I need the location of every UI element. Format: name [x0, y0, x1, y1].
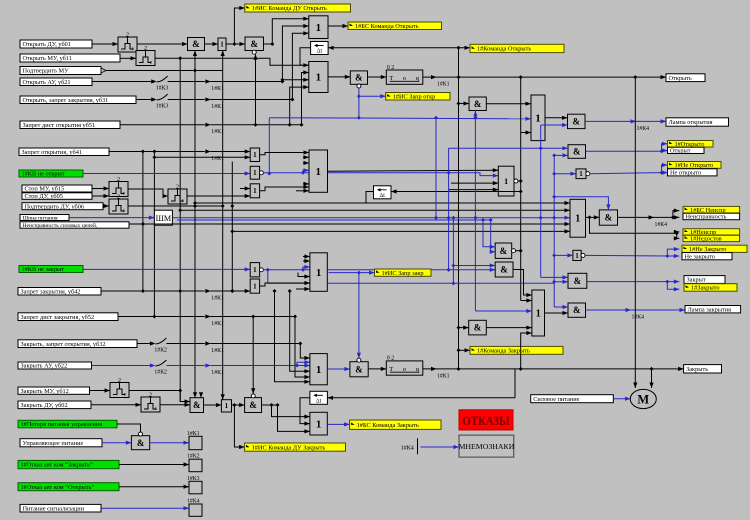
wire B9 out to AND A3 — [586, 215, 600, 219]
and gate A1 (лампа открытия) — [568, 114, 586, 128]
blue branch y283 to right — [268, 270, 554, 284]
wire уб31 to riser — [210, 98, 294, 102]
riser АУ to OR B1 input2 — [282, 24, 308, 82]
vertical open command to motor — [633, 77, 637, 388]
vertical command bus — [457, 48, 461, 369]
wire U7 to U8 — [232, 403, 245, 407]
blue input A4 b — [552, 280, 568, 284]
wire P2 out along y58 — [155, 58, 309, 67]
wire Открыть ДУ to pulse P1 — [92, 42, 118, 46]
contact 1#К1 on уб41 line — [205, 149, 224, 162]
svg-text:0 2: 0 2 — [387, 356, 395, 362]
svg-text:1#К1: 1#К1 — [211, 370, 224, 376]
wire уб51 to contact 1#К1 — [120, 124, 205, 126]
wire P1 out to AND U1 — [137, 42, 188, 46]
input label: Открыть МУ, уб11 — [20, 54, 120, 62]
wire U2 to U3 — [226, 42, 245, 46]
svg-text:Управляющее питание: Управляющее питание — [23, 440, 84, 447]
wire T2 out to Закрыть output — [423, 367, 684, 371]
timer T1 (0 2) — [386, 65, 423, 85]
svg-text:1#К1: 1#К1 — [437, 82, 450, 88]
relay coil 1#К1 — [187, 431, 202, 450]
wire Неисправность силовых цепей bus y224 — [129, 222, 570, 226]
wire уб52 to contact — [118, 316, 205, 318]
contact 1#К1 on open command line — [431, 75, 450, 88]
wire уб32 to switch — [137, 343, 149, 345]
or gate B2 — [309, 62, 328, 93]
contact 1#К1 on уб31 line — [205, 97, 224, 110]
wire PA out to pulse PC — [128, 189, 168, 198]
blue input A6 b — [489, 218, 496, 254]
stub to AND U10 — [459, 326, 469, 330]
svg-text:Неисправность: Неисправность — [686, 214, 727, 221]
svg-text:1#К3: 1#К3 — [156, 86, 169, 92]
svg-text:1#Не Открыто: 1#Не Открыто — [675, 162, 714, 169]
blue wire from U4 inverter to Запр откр label — [357, 88, 361, 118]
arrow input B3 d — [296, 189, 309, 193]
blue wire g2 out to OR G1s — [263, 171, 498, 178]
svg-text:2: 2 — [117, 194, 120, 200]
blue enable line y117.7 to OR B7 — [269, 116, 531, 121]
svg-text:&: & — [250, 39, 258, 49]
svg-text:Закрыть ДУ, уб02: Закрыть ДУ, уб02 — [21, 402, 68, 409]
svg-text:&: & — [500, 265, 508, 275]
blue input A2 b — [552, 153, 568, 157]
svg-text:1#ИС Запр откр: 1#ИС Запр откр — [393, 94, 436, 101]
svg-text:1: 1 — [504, 177, 508, 186]
input label: Подтвердить МУ — [20, 67, 101, 75]
svg-text:1#К1: 1#К1 — [211, 295, 224, 301]
and gate U5 — [469, 97, 486, 111]
arrow input B3 b — [303, 161, 309, 165]
svg-text:2: 2 — [176, 184, 179, 190]
blue input A7 a — [451, 263, 495, 267]
blue wire Управляющее питание to A0 — [102, 441, 131, 445]
svg-text:Открыть, запрет закрытия, уб31: Открыть, запрет закрытия, уб31 — [23, 97, 109, 104]
input label: Неисправность силовых цепей — [20, 222, 129, 229]
signal label: 1#ИС Команда ДУ Открыть — [245, 4, 351, 12]
svg-text:1#К2: 1#К2 — [154, 370, 167, 376]
contact 1#К4 on лампа открытия line — [631, 119, 650, 132]
wire Δt3 out down — [366, 192, 374, 204]
svg-text:1: 1 — [316, 267, 322, 279]
timer T2 (0 2) — [386, 356, 423, 375]
stub to AND U5 — [459, 101, 470, 105]
input label: Закрыть ДУ, уб02 — [18, 401, 91, 409]
signal label: 1#ИС Запр закр — [375, 269, 432, 277]
stub input g3 — [240, 186, 250, 190]
input label: Запрет открытия, уб41 — [19, 148, 109, 156]
or gate B7 — [531, 95, 545, 141]
vertical close command to motor — [649, 369, 653, 388]
fork to 1#Недостов — [674, 233, 680, 240]
input label: Закрыть, запрет открытия, уб32 — [18, 340, 137, 348]
input label: Запрет закрытия, уб42 — [18, 288, 101, 296]
switch contact 1#К3 on АУ line — [150, 76, 168, 92]
svg-text:1#Команда Закрыть: 1#Команда Закрыть — [477, 348, 530, 355]
svg-text:1#К2: 1#К2 — [187, 454, 200, 460]
wire уб32 to contact 1#К1 — [166, 343, 204, 345]
blue input A5 — [554, 305, 568, 309]
svg-text:1: 1 — [315, 166, 321, 178]
marker label: 1#Отказ авт ком Закрыть — [18, 460, 119, 468]
svg-text:1#Закрыто: 1#Закрыто — [691, 285, 720, 292]
svg-text:2: 2 — [117, 177, 120, 183]
svg-text:1: 1 — [253, 266, 257, 274]
svg-text:2: 2 — [144, 46, 147, 52]
wire riser to label ИС Команда ДУ Открыть — [234, 6, 244, 44]
blue fork to 1#Не Закрыто — [667, 247, 679, 256]
wire bus y203 — [193, 201, 570, 205]
contact 1#К1 on уб52 line — [205, 314, 224, 327]
svg-text:2: 2 — [126, 32, 129, 38]
and gate A2 (открыто) — [568, 145, 586, 159]
blue wire Шина питания to ШМ — [69, 216, 154, 220]
contact 1#К1 on уб51 line — [205, 123, 224, 136]
relay coil 1#К2 — [187, 454, 202, 472]
or gate g3 — [250, 184, 259, 198]
arrow to Неисправность — [673, 215, 679, 219]
svg-text:Стоп ДУ, уб05: Стоп ДУ, уб05 — [25, 193, 63, 200]
svg-text:&: & — [355, 364, 363, 374]
riser уб32 to B5 input1 — [300, 344, 310, 361]
arrow into U6 top — [193, 392, 197, 398]
svg-text:1#БС Команда Закрыть: 1#БС Команда Закрыть — [357, 422, 419, 429]
svg-text:1#К1: 1#К1 — [211, 86, 224, 92]
and gate A3 (неисправность) — [599, 210, 617, 225]
or gate B9 (неисправности) — [570, 199, 586, 237]
riser уб52 to inverted input bottom AND — [251, 317, 255, 394]
marker label: 1#КВ не открыт — [19, 170, 83, 178]
contact 1#К1 on уб42 line — [205, 289, 224, 302]
alarm box ОТКАЗЫ — [459, 410, 513, 430]
riser to B5 input5 — [288, 289, 310, 373]
blue wire N1 out to pair Не открыто — [590, 171, 664, 175]
svg-text:Δt: Δt — [317, 49, 323, 55]
wire Отказ Закрыть to coil K2 — [119, 462, 189, 466]
svg-text:Закрыть АУ, уб22: Закрыть АУ, уб22 — [21, 363, 68, 370]
blue vertical v436 — [434, 116, 438, 220]
svg-text:М: М — [637, 393, 649, 407]
wire A7 out to OR B8 input1 — [513, 270, 532, 298]
svg-text:2: 2 — [118, 378, 121, 384]
blue fork to 1#Не Открыто — [662, 163, 668, 173]
input G1s d — [449, 188, 498, 192]
svg-text:1: 1 — [316, 364, 322, 376]
riser уб42 to B5 — [273, 289, 310, 384]
or gate B5 — [310, 354, 327, 385]
blue feeder to A2 input1 — [449, 146, 568, 150]
output label: Лампа закрытия — [685, 306, 741, 314]
input label: Запрет дист закрытия, уб52 — [18, 313, 118, 321]
input label: Закрыть МУ, уб12 — [18, 387, 90, 395]
switch contact 1#К3 on уб31 line — [150, 94, 168, 110]
or gate U2 (1) — [218, 38, 226, 51]
wire уб42 line — [101, 290, 205, 292]
stub v520 to B8 input2 — [521, 298, 532, 302]
svg-text:1#Отказ авт ком “Открыть”: 1#Отказ авт ком “Открыть” — [21, 484, 95, 491]
svg-text:Δt: Δt — [316, 398, 322, 404]
or gate B4 — [310, 253, 327, 291]
blue power bus y217.7 — [172, 216, 570, 220]
wire Потеря питания to AND A0 — [117, 424, 141, 432]
svg-text:1: 1 — [220, 41, 224, 49]
wire feedback into Δt2 — [328, 396, 516, 400]
svg-text:МНЕМОЗНАКИ: МНЕМОЗНАКИ — [458, 442, 514, 451]
blue riser from КВ не открыт line — [268, 118, 270, 174]
or gate U7 (1) — [221, 400, 231, 412]
wire уб32 to riser — [210, 342, 302, 346]
svg-text:&: & — [605, 213, 613, 223]
blue branch to label ИС Запр откр — [359, 94, 386, 98]
or gate g5 — [250, 279, 259, 293]
blue input B8 — [475, 309, 532, 313]
marker label: 1#Потеря питания управления — [18, 420, 117, 428]
riser уб31 to OR B1 input3 — [292, 31, 308, 99]
svg-text:1: 1 — [575, 252, 579, 260]
blue power bus second line — [177, 219, 491, 221]
wire U4 out to timer T1 — [368, 75, 387, 79]
input label: Стоп МУ, уб15 — [22, 185, 92, 193]
pulse former P4 (Закрыть МУ) — [110, 378, 129, 398]
wire into Δt3 from right — [391, 189, 523, 193]
svg-text:&: & — [572, 117, 580, 127]
wire U10 out to OR B8 — [486, 326, 532, 330]
second arrow into U6 top — [199, 392, 203, 398]
vertical v154 from уб41 — [152, 152, 156, 319]
wire U8 out — [262, 403, 280, 407]
output label: Не закрыто — [682, 253, 732, 261]
svg-text:Закрыть, запрет открытия, уб32: Закрыть, запрет открытия, уб32 — [21, 341, 106, 348]
svg-text:1#ИС Команда ДУ Закрыть: 1#ИС Команда ДУ Закрыть — [252, 444, 326, 451]
blue wire Силовое питание to motor — [613, 397, 630, 401]
and gate A4 (закрыто) — [568, 273, 587, 288]
input label: Подтвердить ДУ, уб06 — [22, 203, 103, 211]
svg-text:1#К1: 1#К1 — [211, 156, 224, 162]
riser to OR B6 input3 — [278, 405, 310, 434]
wire уб31 to contact 1#К1 — [168, 99, 205, 101]
or gate g4 inverted — [250, 263, 263, 277]
svg-text:2: 2 — [149, 392, 152, 398]
blue fork to 1#Закрыто — [667, 282, 679, 292]
signal label: 1#Закрыто — [684, 284, 737, 292]
or gate N1 inverted (не открыто) — [576, 169, 590, 179]
signal label: 1#БС Команда Открыть — [348, 22, 442, 30]
signal label: 1#БС Неиспр — [683, 206, 740, 214]
svg-text:1#К4: 1#К4 — [637, 126, 650, 132]
svg-text:Неисправность силовых цепей,: Неисправность силовых цепей, — [23, 222, 98, 229]
vertical from G1s out — [518, 180, 521, 182]
switch contact 1#К2 on уб22 line — [149, 360, 167, 376]
svg-text:1#К3: 1#К3 — [187, 476, 200, 482]
pulse former PC — [168, 184, 187, 204]
and gate U8 inverted — [245, 394, 262, 413]
wire Стоп МУ to pulse PA — [92, 186, 109, 190]
input label: Шина питания — [20, 215, 69, 222]
riser уб51 to OR B2 input2 — [302, 70, 309, 124]
signal label: 1#БС Команда Закрыть — [350, 420, 441, 429]
blue wire B5 out to AND U9 — [327, 367, 350, 371]
svg-text:ШМ: ШМ — [156, 214, 172, 223]
blue vertical v475 — [473, 111, 477, 311]
svg-text:ОТКАЗЫ: ОТКАЗЫ — [463, 414, 511, 428]
blue line КВ не открыт — [83, 171, 271, 175]
wire U3 output to OR B1 input1 — [264, 17, 309, 46]
pulse former PB (Подтвердить ДУ) — [109, 194, 128, 214]
wire riser into OR U2 bottom — [221, 51, 225, 71]
blue wire B6 out to БС Команда Закрыть — [327, 422, 349, 426]
delay block Δt2 — [310, 391, 328, 404]
vertical feedback from close line — [514, 369, 516, 398]
svg-text:1#К1: 1#К1 — [211, 348, 224, 354]
blue wire уб22 to B5 — [210, 363, 310, 367]
or gate N2 inverted (не закрыто) — [573, 250, 585, 260]
blue input A6 a — [481, 218, 495, 249]
or gate g1 — [250, 148, 259, 162]
svg-text:Запрет закрытия, уб42: Запрет закрытия, уб42 — [21, 288, 81, 295]
blue vertical into U9 inverter — [357, 273, 361, 359]
and gate U10 — [469, 320, 487, 335]
svg-text:Не открыто: Не открыто — [670, 170, 701, 177]
wire U9 out to timer T2 — [368, 367, 386, 371]
wire U6 to U7 — [204, 403, 222, 407]
signal label: 1#Открыто — [668, 141, 714, 148]
blue arrow to Открыт — [662, 148, 668, 152]
and gate U6 — [190, 398, 204, 413]
svg-text:Питание сигнализации: Питание сигнализации — [23, 505, 85, 512]
svg-text:1: 1 — [575, 214, 580, 225]
svg-text:Открыт: Открыт — [670, 148, 691, 155]
output label: Лампа открытия — [666, 118, 729, 126]
input label: Питание сигнализации — [20, 504, 101, 512]
wire g3 out to OR B3 — [260, 185, 309, 191]
svg-text:&: & — [574, 276, 582, 286]
svg-text:Запрет открытия, уб41: Запрет открытия, уб41 — [22, 149, 83, 156]
input label: Закрыть АУ, уб22 — [18, 362, 92, 370]
relay coil 1#К4 — [187, 499, 202, 517]
blue vertical v448 — [447, 148, 451, 272]
arrow input B4 b — [303, 259, 310, 263]
blue wire A1 out to Лампа открытия — [585, 119, 666, 123]
wire Отказ Открыть to coil K3 — [119, 485, 189, 489]
arrow input B4 c — [298, 273, 310, 279]
blue arrow to Закрыт — [667, 280, 679, 284]
input label: Запрет дист открытия уб51 — [20, 121, 120, 129]
arrow input B3 c — [303, 182, 309, 186]
and gate U3 inverted out — [245, 37, 264, 54]
svg-text:1#Команда Открыть: 1#Команда Открыть — [477, 46, 531, 53]
svg-text:1: 1 — [535, 113, 541, 125]
svg-text:Силовое питание: Силовое питание — [533, 396, 579, 403]
wire Закрыть МУ to pulse P4 — [90, 388, 111, 392]
svg-text:&: & — [474, 99, 482, 109]
wire PB out y206 — [128, 204, 223, 208]
blue stub into B4 — [303, 265, 310, 270]
blue wire уб22 to switch — [92, 365, 150, 367]
relay coil 1#К3 — [187, 476, 202, 494]
blue input N2 — [554, 253, 573, 257]
blue stub into B3 — [303, 168, 309, 173]
svg-text:&: & — [355, 73, 363, 83]
svg-text:Δt: Δt — [380, 193, 386, 199]
svg-text:&: & — [193, 400, 201, 410]
marker label: 1#КВ не закрыт — [19, 266, 83, 274]
svg-text:1: 1 — [536, 308, 541, 319]
svg-text:&: & — [192, 39, 200, 49]
blue vertical v540 — [540, 125, 542, 277]
blue wire уб22 to contact 1#К1 — [166, 365, 204, 367]
and gate A6 inverted (запрет) — [495, 243, 515, 258]
signal label: 1#Команда Закрыть — [470, 346, 563, 354]
wire riser into AND U1 bottom — [193, 51, 197, 71]
svg-text:Открыть АУ, уб21: Открыть АУ, уб21 — [23, 79, 71, 86]
svg-text:1: 1 — [253, 151, 257, 159]
svg-text:1#К4: 1#К4 — [401, 445, 414, 451]
wire feedback into Δt1 and to label Команда Открыть — [328, 46, 470, 50]
contact 1#К1 on уб32 line — [205, 341, 224, 354]
wire Открыть МУ to pulse P2 — [120, 56, 136, 60]
svg-text:Закрыт: Закрыт — [687, 277, 706, 284]
signal label: 1#Недостов — [683, 235, 740, 242]
blue wire A2 out to pair Открыто — [586, 149, 664, 153]
svg-text:&: & — [573, 305, 581, 315]
svg-text:Запрет дист закрытия, уб52: Запрет дист закрытия, уб52 — [21, 314, 95, 321]
svg-text:Лампа открытия: Лампа открытия — [669, 119, 713, 126]
svg-text:1#К3: 1#К3 — [156, 104, 169, 110]
long vertical v195 — [193, 51, 197, 398]
svg-text:Подтвердить ДУ, уб06: Подтвердить ДУ, уб06 — [25, 203, 85, 210]
wire уб41 to OR g1 — [210, 149, 250, 153]
pulse former PA (Стоп) — [109, 177, 128, 197]
svg-text:&: & — [474, 323, 482, 333]
wire Закрыть ДУ to pulse P5 — [91, 403, 141, 407]
or gate B8 (закрытие) — [532, 290, 545, 336]
vertical v143 from уб41 — [141, 152, 145, 294]
stub to label Команда Закрыть — [459, 348, 471, 352]
or gate B3 — [309, 150, 328, 192]
contact 1#К1 on close command line — [431, 367, 450, 380]
svg-text:Закрыть МУ, уб12: Закрыть МУ, уб12 — [21, 388, 69, 395]
long vertical v222 — [221, 71, 225, 400]
blue input into A3 top — [554, 197, 610, 210]
signal label: 1#Не Открыто — [668, 162, 722, 170]
svg-text:Открыть МУ, уб11: Открыть МУ, уб11 — [23, 55, 72, 62]
svg-text:1#К4: 1#К4 — [187, 499, 200, 505]
contact 1#К1 on уб22 line — [205, 363, 224, 376]
and gate U4 inverted enable — [350, 71, 367, 88]
pulse former P5 (Закрыть ДУ) — [141, 392, 160, 412]
svg-text:1#Отказ авт ком “Закрыть”: 1#Отказ авт ком “Закрыть” — [21, 462, 93, 469]
blue input N1 — [554, 172, 576, 176]
wire bus y231 — [232, 229, 570, 233]
signal label: 1#Не Закрыто — [682, 245, 747, 253]
output label: Закрыть — [684, 365, 722, 373]
and gate A0 inverted (питание управления) — [131, 432, 149, 450]
blue input A1 — [541, 123, 568, 127]
wire уб51 across — [210, 123, 303, 127]
signal label: 1#ИС Команда ДУ Закрыть — [245, 443, 346, 451]
riser уб51 to inverted input of U3 — [253, 54, 257, 125]
pulse former P1 (Открыть ДУ) — [118, 32, 137, 52]
blue line КВ не закрыт — [83, 267, 250, 271]
svg-text:1#К1: 1#К1 — [211, 104, 224, 110]
wire B3 out to OR gate G1s — [328, 168, 499, 172]
svg-text:1#КВ не открыт: 1#КВ не открыт — [22, 171, 65, 178]
wire B7 out to AND A1 — [545, 116, 568, 120]
svg-text:1: 1 — [316, 72, 322, 84]
output label: Открыть — [666, 74, 705, 82]
wire B8 out to AND A5 — [545, 311, 569, 315]
